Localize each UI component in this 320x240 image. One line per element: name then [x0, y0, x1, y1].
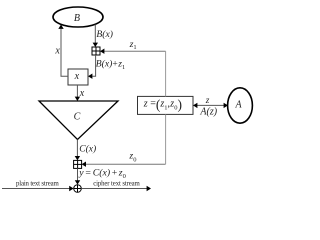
wire double arrow between box z and ellipse A: [193, 103, 228, 108]
svg-text:C(x): C(x): [79, 144, 96, 155]
wire B(x) vertical from ellipse B to adder 1: [93, 25, 98, 48]
svg-text:cipher text stream: cipher text stream: [93, 181, 140, 188]
svg-text:B: B: [74, 13, 80, 24]
wire C(x) from triangle apex down to adder 2: [75, 140, 80, 161]
wire x feedback from box x left, up into ellipse B: [58, 25, 68, 77]
svg-text:y=C(x)+z0: y=C(x)+z0: [78, 168, 126, 181]
wire from adder 2 down to xor circle: [75, 168, 80, 184]
triangle C: [39, 101, 118, 140]
wire cipher text stream out of xor: [81, 186, 151, 191]
svg-text:A(z): A(z): [199, 106, 217, 117]
adder (crossed box) 1: [92, 47, 100, 55]
register box x: [68, 69, 88, 85]
ellipse B: [53, 7, 103, 27]
box z = (z1, z0): [138, 96, 194, 114]
xor circle: [74, 185, 82, 193]
svg-text:C: C: [74, 112, 81, 123]
wire z0 vertical from box z bottom: [165, 114, 167, 164]
svg-text:x: x: [74, 71, 80, 82]
svg-text:plain text stream: plain text stream: [16, 181, 59, 188]
svg-text:x: x: [79, 88, 85, 99]
wire z0 horizontal into adder 2: [82, 162, 166, 167]
wire plain text stream into xor: [2, 186, 74, 191]
svg-text:x: x: [54, 45, 60, 56]
svg-text:A: A: [234, 100, 242, 111]
wire B(x)+z1 from adder 1 down and left into box x: [88, 55, 96, 79]
wire z1 horizontal into adder 1: [100, 49, 166, 54]
svg-text:B(x): B(x): [96, 29, 113, 40]
wire x from box x down to triangle C: [75, 85, 80, 101]
svg-text:z: z: [205, 95, 210, 105]
adder (crossed box) 2: [74, 160, 82, 168]
wire z1 vertical from box z top: [165, 51, 167, 96]
ellipse A: [228, 88, 253, 123]
svg-text:B(x)+z1: B(x)+z1: [96, 59, 125, 72]
